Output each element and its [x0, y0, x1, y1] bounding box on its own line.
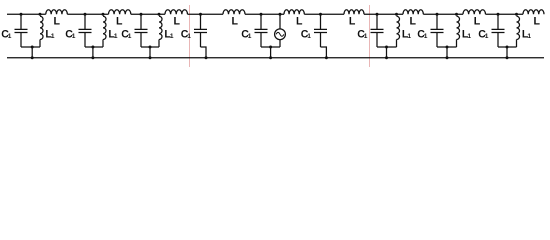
svg-text:1: 1: [170, 33, 174, 40]
svg-text:1: 1: [114, 33, 118, 40]
svg-text:1: 1: [51, 33, 55, 40]
svg-text:L: L: [474, 15, 481, 27]
svg-text:1: 1: [187, 33, 191, 40]
svg-text:1: 1: [407, 33, 411, 40]
svg-text:1: 1: [248, 33, 252, 40]
svg-text:1: 1: [467, 33, 471, 40]
svg-text:1: 1: [364, 33, 368, 40]
svg-text:1: 1: [307, 33, 311, 40]
svg-text:L: L: [231, 15, 238, 27]
svg-text:L: L: [296, 15, 303, 27]
svg-text:1: 1: [8, 33, 12, 40]
svg-text:1: 1: [527, 33, 531, 40]
svg-text:1: 1: [72, 33, 76, 40]
svg-text:L: L: [116, 15, 123, 27]
svg-text:1: 1: [128, 33, 132, 40]
svg-text:L: L: [173, 15, 180, 27]
svg-text:L: L: [409, 15, 416, 27]
svg-text:L: L: [53, 15, 60, 27]
svg-text:1: 1: [424, 33, 428, 40]
svg-text:L: L: [349, 15, 356, 27]
svg-text:L: L: [533, 15, 540, 27]
svg-text:1: 1: [485, 33, 489, 40]
